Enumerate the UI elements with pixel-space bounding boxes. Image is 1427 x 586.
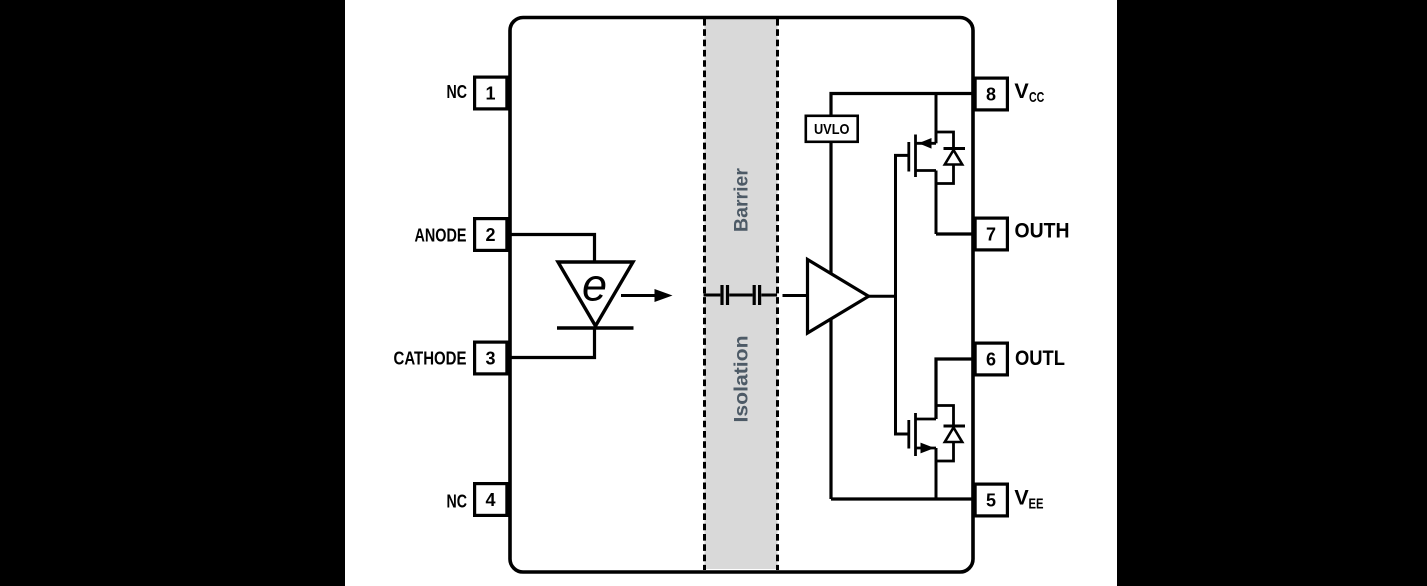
wire: UVLO to VEE rail (through buffer) (829, 143, 832, 499)
package outline (IC body) (510, 18, 973, 573)
MOSFET Q2 (low side) (909, 413, 936, 499)
wire: OUTH (pin 7) (936, 232, 974, 235)
body diode of Q2 (936, 406, 965, 462)
svg-text:8: 8 (986, 85, 996, 105)
optical signal arrow (621, 289, 673, 302)
UVLO block U2 (806, 116, 858, 142)
body diode of Q1 (936, 132, 965, 184)
svg-text:UVLO: UVLO (814, 121, 850, 138)
wire: OUTL (pin 6) (936, 359, 974, 419)
svg-text:NC: NC (447, 82, 468, 102)
VEE rail wire (pin 5) (831, 497, 974, 500)
svg-text:NC: NC (447, 492, 468, 512)
pin 4 box (475, 484, 507, 516)
pin 6 box (975, 343, 1007, 375)
pin 3 box (475, 342, 507, 374)
LED emitter D1 (triangle + cathode bar) (557, 262, 634, 328)
svg-text:ANODE: ANODE (415, 226, 467, 246)
wire: pin 2 to LED anode (510, 235, 595, 264)
svg-text:CATHODE: CATHODE (394, 349, 467, 369)
svg-text:1: 1 (485, 84, 495, 104)
isolation barrier region (gray band) (705, 19, 778, 570)
buffer U1 (triangle) (808, 260, 869, 334)
svg-text:5: 5 (986, 491, 996, 511)
pin 2 box (475, 219, 507, 251)
coupling capacitors across barrier (704, 285, 778, 305)
svg-text:EE: EE (1029, 496, 1044, 513)
pin 7 box (975, 218, 1007, 250)
MOSFET Q1 (high side) (909, 94, 936, 235)
wire: buffer output to gate bus (869, 295, 896, 298)
svg-text:Isolation: Isolation (731, 336, 753, 423)
svg-text:CC: CC (1029, 89, 1044, 106)
VCC rail wire (pin 8) (831, 94, 974, 115)
svg-text:Barrier: Barrier (731, 168, 753, 232)
svg-text:OUTL: OUTL (1015, 346, 1065, 370)
wire: LED cathode to pin 3 (510, 327, 595, 358)
svg-text:e: e (582, 260, 607, 311)
svg-text:OUTH: OUTH (1015, 219, 1070, 243)
wire: barrier to buffer input (783, 294, 808, 297)
gate bus wire (896, 155, 908, 434)
svg-text:6: 6 (986, 350, 996, 370)
svg-text:4: 4 (485, 490, 495, 510)
pin 5 box (975, 484, 1007, 516)
svg-text:2: 2 (485, 225, 495, 245)
svg-text:7: 7 (986, 225, 996, 245)
svg-text:V: V (1014, 79, 1029, 103)
svg-text:V: V (1014, 486, 1029, 510)
svg-text:3: 3 (485, 349, 495, 369)
white page background (345, 0, 1117, 586)
pin 1 box (475, 77, 507, 109)
pin 8 box (975, 78, 1007, 110)
